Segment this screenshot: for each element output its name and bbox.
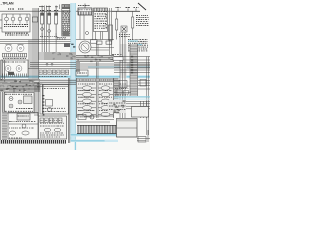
svg-text:..TPLAN: ..TPLAN xyxy=(1,1,14,5)
